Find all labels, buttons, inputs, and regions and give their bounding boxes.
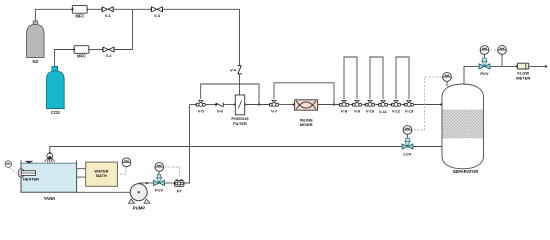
wire: V-10 to V-11	[375, 104, 378, 106]
svg-text:V-9: V-9	[354, 109, 361, 114]
svg-text:V-4: V-4	[230, 68, 237, 73]
wire: V-11 to V-12	[388, 104, 391, 106]
svg-text:V-1: V-1	[105, 13, 112, 18]
wire: main line from riser corner to V-5	[190, 104, 196, 106]
wire: tank to water bath upper connector	[77, 168, 86, 170]
wire: mixer bypass header	[274, 83, 334, 105]
wire: mixer to V-8	[318, 104, 339, 106]
wire: N2 riser and top header to MFC	[35, 9, 72, 21]
wire: level signal dash LCV to separator gauge	[414, 77, 443, 130]
svg-text:MFC: MFC	[77, 54, 86, 59]
valve V-5	[195, 100, 205, 113]
wire: V-3 to down-corner toward V-4	[163, 9, 240, 65]
wire: V-6 to filter	[223, 104, 235, 106]
svg-text:PUMP: PUMP	[133, 205, 146, 210]
control valve PCV	[479, 46, 490, 76]
separator vessel	[442, 84, 484, 174]
N2 cylinder	[27, 21, 44, 64]
valve V-11	[377, 100, 387, 114]
svg-text:V-8: V-8	[341, 109, 348, 114]
svg-text:V-12: V-12	[392, 109, 401, 114]
gauge TI at water bath	[117, 158, 130, 174]
wire: CO2 riser to MFC2	[55, 50, 74, 67]
valve V-3	[150, 7, 162, 18]
MFC 1	[72, 6, 88, 19]
svg-text:FILTER: FILTER	[233, 121, 247, 126]
MFC 2	[73, 46, 89, 59]
svg-text:PCV: PCV	[480, 71, 489, 76]
spray nozzle into tank	[45, 152, 55, 163]
wire: filter bypass header	[201, 84, 259, 105]
svg-text:CO2: CO2	[51, 110, 60, 115]
valve V-6 (line-break symbol)	[215, 103, 224, 114]
heater	[18, 169, 39, 182]
wire: filter to V-7	[245, 104, 269, 106]
wire: PCV to flow meter	[490, 65, 518, 67]
tank	[21, 160, 77, 200]
CO2 cylinder	[47, 66, 65, 115]
svg-text:N2: N2	[33, 59, 39, 64]
wire: V-12 to V-13	[401, 104, 404, 106]
wire: MFC1 to V-1	[87, 8, 102, 10]
svg-text:LCV: LCV	[404, 151, 412, 156]
valve V-8	[338, 100, 348, 113]
water bath	[86, 162, 118, 186]
sample loop 1	[344, 57, 357, 99]
liquid level mark	[25, 161, 34, 164]
svg-text:V-11: V-11	[379, 109, 388, 114]
pump	[129, 184, 150, 211]
wire: tank to water bath lower connector	[77, 176, 86, 178]
svg-text:V-7: V-7	[271, 109, 278, 114]
valve V-4 (line-break symbol on vertical drop)	[230, 66, 242, 74]
gauge TI at tank	[5, 161, 17, 173]
wire: V-13 to separator inlet	[414, 104, 442, 106]
wire: flow signal dash FCV gauge to FT	[165, 167, 180, 178]
wire: FCV to FT	[164, 182, 174, 184]
svg-text:V-3: V-3	[154, 13, 161, 18]
svg-text:V-6: V-6	[217, 109, 224, 114]
svg-text:MIXER: MIXER	[300, 122, 313, 127]
wire: V-2 to junction with top header	[114, 9, 132, 49]
porous filter	[231, 95, 249, 126]
valve V-2	[102, 47, 114, 58]
svg-text:V-2: V-2	[105, 53, 112, 58]
valve V-9	[351, 100, 361, 113]
sample loop 2	[370, 57, 383, 99]
wire: V-9 to V-10	[362, 104, 365, 106]
node: mixer bypass tee	[333, 103, 335, 105]
wire: V-1 to V-3	[113, 8, 151, 10]
node: separator inlet	[440, 103, 442, 105]
valve V-13	[403, 100, 413, 113]
wire: flow meter outlet	[529, 65, 546, 67]
valve V-12	[390, 100, 400, 113]
control valve FCV	[154, 163, 165, 193]
svg-text:FCV: FCV	[155, 188, 163, 193]
wire: V-7 to inline mixer	[279, 104, 295, 106]
wire: V-8 to V-9	[349, 104, 352, 106]
control valve LCV	[402, 126, 413, 157]
node: outlet end	[545, 65, 547, 67]
node: bypass tee at main line	[258, 103, 260, 105]
wire: separator bottom outlet to LCV and return to tank spray	[413, 146, 442, 148]
svg-text:V-10: V-10	[366, 109, 375, 114]
svg-text:V-5: V-5	[198, 109, 205, 114]
gauge on separator top	[443, 73, 452, 87]
svg-text:TANK: TANK	[44, 196, 57, 201]
wire: V-5 to V-6	[206, 104, 216, 106]
wire: V-4 down to porous filter top	[239, 74, 241, 95]
wire: tank bottom suction line to pump	[77, 191, 131, 193]
wire: FT to riser up to main line	[184, 105, 190, 184]
svg-text:HEATER: HEATER	[23, 176, 39, 181]
wire: MFC2 to V-2	[89, 49, 103, 51]
svg-text:SEPARATOR: SEPARATOR	[453, 169, 479, 174]
svg-text:METER: METER	[516, 75, 530, 80]
valve V-1	[101, 7, 113, 18]
svg-text:MFC: MFC	[75, 14, 84, 19]
gauge 2 on outlet line	[498, 46, 507, 67]
inline mixer	[293, 100, 318, 127]
svg-text:BATH: BATH	[96, 173, 107, 178]
svg-text:V-13: V-13	[405, 109, 414, 114]
flow meter	[516, 63, 531, 80]
sample loop 3	[396, 57, 409, 99]
wire: signal dash between PCV gauge and gauge 2	[491, 49, 497, 51]
svg-text:FT: FT	[177, 189, 182, 194]
wire: separator overhead riser to PCV	[464, 66, 479, 84]
wire: pump discharge to FCV	[139, 182, 154, 184]
valve V-7	[268, 100, 278, 113]
valve V-10	[364, 100, 374, 113]
flow transmitter FT	[174, 180, 184, 194]
